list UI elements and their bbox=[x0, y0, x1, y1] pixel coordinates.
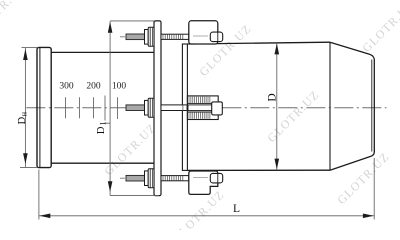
dim D1 arrow up bbox=[108, 22, 113, 33]
svg-text:300: 300 bbox=[59, 81, 74, 91]
svg-text:GLOTR.UZ: GLOTR.UZ bbox=[334, 149, 392, 207]
top bolt: stud left bbox=[126, 34, 145, 40]
top bolt: washer bbox=[145, 30, 149, 45]
dim D1 ext bottom bbox=[110, 195, 159, 197]
top gland: hidden stud dash bbox=[193, 35, 208, 37]
dim Dn ext top bbox=[22, 46, 38, 48]
left flange bbox=[37, 47, 51, 167]
middle bolt: stud left bbox=[126, 105, 145, 111]
bottom bolt: nut bbox=[148, 169, 154, 188]
dim D1 line bbox=[109, 21, 111, 195]
middle bolt: stud bbox=[161, 105, 212, 111]
dim L arrow right bbox=[363, 214, 374, 219]
dim D line bbox=[276, 43, 278, 170]
bottom gland boss bbox=[210, 173, 222, 183]
top bolt: stud right threaded bbox=[161, 34, 189, 39]
pipe bbox=[51, 52, 154, 163]
centerline bbox=[26, 107, 386, 109]
dim D1 ext top bbox=[110, 20, 154, 22]
svg-text:L: L bbox=[233, 203, 240, 215]
top bolt: centerline dash bbox=[120, 36, 125, 38]
dim L arrow left bbox=[40, 214, 51, 219]
bottom gland: hidden stud dash bbox=[193, 176, 208, 178]
svg-text:GLOTR.UZ: GLOTR.UZ bbox=[0, 0, 28, 38]
dim Dn ext bottom bbox=[20, 166, 37, 168]
dim D1 jog bbox=[104, 122, 110, 124]
ruler tick 2 bbox=[79, 97, 81, 118]
dim Dn arrow up bbox=[23, 49, 28, 60]
top bolt: nut bbox=[148, 27, 154, 46]
bottom bolt: centerline dash bbox=[120, 177, 125, 179]
flange plate P1 bbox=[154, 21, 161, 196]
svg-text:Dн: Dн bbox=[17, 111, 29, 124]
top gland boss bbox=[210, 32, 222, 42]
dim D1 arrow down bbox=[108, 181, 113, 192]
svg-text:GLOTR.UZ: GLOTR.UZ bbox=[359, 0, 400, 55]
dim Dn arrow down bbox=[23, 153, 28, 164]
dim L ext left bbox=[38, 170, 40, 220]
dim D arrow down bbox=[275, 159, 280, 170]
middle sleeve bbox=[187, 96, 218, 120]
bottom bolt: stud left bbox=[126, 175, 145, 181]
bottom bolt: washer bbox=[145, 171, 149, 186]
dim L ext right bbox=[373, 158, 375, 220]
svg-text:200: 200 bbox=[86, 81, 101, 91]
ruler tick 5 bbox=[117, 97, 119, 119]
svg-text:D: D bbox=[267, 93, 279, 101]
body flange plate P2 bbox=[182, 44, 187, 170]
middle bolt: nut bbox=[148, 98, 154, 117]
svg-text:100: 100 bbox=[112, 81, 127, 91]
middle end block bbox=[212, 102, 223, 115]
body outline bbox=[187, 42, 374, 170]
top gland block bbox=[189, 21, 218, 44]
dim D arrow up bbox=[275, 43, 280, 54]
ruler tick 1 bbox=[65, 97, 67, 118]
bottom gland block with notch bbox=[189, 171, 218, 194]
dim L line bbox=[39, 215, 374, 217]
dim Dn line bbox=[24, 48, 26, 167]
ruler tick 4 bbox=[104, 96, 106, 121]
middle stud inside sleeve bbox=[188, 105, 212, 111]
svg-text:D1: D1 bbox=[96, 122, 108, 135]
ruler tick 3 bbox=[93, 97, 95, 118]
bottom bolt: stud right threaded bbox=[161, 176, 189, 181]
middle bolt: washer bbox=[145, 100, 149, 115]
